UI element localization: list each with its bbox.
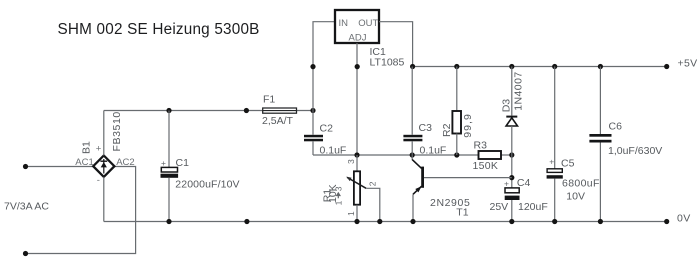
svg-text:OUT: OUT	[358, 18, 378, 29]
node dot on IN riser	[310, 64, 315, 69]
node R1 bottom	[354, 219, 359, 224]
wire +5V rail	[413, 66, 667, 68]
svg-text:R3: R3	[474, 140, 488, 152]
svg-text:3: 3	[346, 159, 356, 164]
svg-text:ADJ: ADJ	[349, 33, 367, 44]
node C3/collector junction	[410, 152, 415, 157]
svg-text:+: +	[504, 178, 509, 188]
node dot on ADJ vertical	[355, 64, 360, 69]
svg-text:2: 2	[367, 181, 377, 186]
svg-text:IN: IN	[339, 18, 349, 29]
wire D3/R3 node down through base to C4	[511, 155, 513, 188]
svg-text:FB3510: FB3510	[111, 111, 123, 151]
svg-text:AC1: AC1	[75, 157, 93, 168]
trimmer R1	[346, 155, 380, 222]
transistor T1	[412, 155, 512, 222]
svg-text:1: 1	[346, 211, 356, 216]
node R3/D3 junction	[509, 152, 514, 157]
svg-text:SHM 002 SE Heizung 5300B: SHM 002 SE Heizung 5300B	[58, 21, 260, 38]
node 0V terminal	[664, 219, 669, 224]
node OUT corner dot	[410, 64, 415, 69]
wire bridge minus down to 0V rail	[103, 177, 105, 222]
node junction C1 top	[166, 108, 171, 113]
svg-text:10V: 10V	[566, 190, 585, 202]
node C6 bottom	[598, 219, 603, 224]
svg-text:F1: F1	[263, 94, 275, 106]
op-amp regulator IC1 box	[335, 10, 379, 43]
svg-text:0V: 0V	[677, 212, 691, 224]
capacitor C5	[547, 67, 563, 222]
wire AC top input	[26, 166, 94, 168]
svg-text:T1: T1	[456, 207, 468, 219]
svg-text:25V: 25V	[490, 201, 509, 213]
node junction dot on 0V	[244, 219, 249, 224]
node C4 bottom	[509, 219, 514, 224]
node R2 bottom junction	[454, 152, 459, 157]
svg-text:+: +	[96, 144, 102, 155]
capacitor C6	[589, 67, 611, 222]
svg-text:7V/3A AC: 7V/3A AC	[4, 201, 49, 213]
node C5 top	[552, 64, 557, 69]
svg-text:1,0uF/630V: 1,0uF/630V	[608, 145, 662, 157]
wire bridge plus up to rail	[103, 111, 105, 156]
node C5 bottom	[552, 219, 557, 224]
capacitor C4	[505, 188, 520, 222]
capacitor C3	[403, 67, 422, 156]
fuse F1	[263, 108, 297, 113]
node D3 top	[509, 64, 514, 69]
resistor R2	[452, 67, 461, 156]
capacitor C2	[304, 111, 323, 156]
svg-text:1N4007: 1N4007	[512, 71, 524, 110]
svg-text:D3: D3	[501, 99, 513, 113]
svg-text:C1: C1	[176, 157, 190, 169]
svg-text:3: 3	[333, 186, 343, 191]
svg-text:0.1uF: 0.1uF	[420, 145, 447, 157]
svg-text:99,9: 99,9	[462, 113, 474, 138]
node ADJ/R1 junction	[354, 152, 359, 157]
svg-text:2,5A/T: 2,5A/T	[262, 115, 294, 127]
svg-text:R2: R2	[441, 123, 453, 137]
wire ADJ pin down	[356, 43, 358, 155]
node junction dot	[244, 108, 249, 113]
svg-text:+: +	[549, 156, 554, 166]
diode D3	[506, 67, 517, 156]
node base junction	[509, 175, 514, 180]
node R1 wiper bottom	[377, 219, 382, 224]
node C1 bottom	[166, 219, 171, 224]
label 1-3 arrow	[333, 186, 343, 205]
bridge rectifier B1	[93, 156, 114, 177]
wire AC bottom input	[26, 167, 136, 254]
svg-text:C3: C3	[419, 122, 433, 134]
svg-text:1: 1	[333, 200, 343, 205]
resistor R3	[479, 151, 502, 159]
node junction F1 out	[310, 108, 315, 113]
svg-text:LT1085: LT1085	[370, 57, 405, 69]
wire ADJ rail	[313, 154, 479, 156]
node AC bottom terminal	[23, 251, 28, 256]
svg-text:120uF: 120uF	[518, 201, 548, 213]
wire IN riser	[313, 22, 335, 111]
wire 0V rail	[104, 221, 667, 223]
svg-text:150K: 150K	[473, 160, 499, 172]
node AC top terminal	[23, 164, 28, 169]
svg-text:-: -	[97, 175, 100, 186]
svg-text:C4: C4	[517, 177, 531, 189]
svg-text:C5: C5	[561, 157, 575, 169]
svg-text:22000uF/10V: 22000uF/10V	[175, 178, 239, 190]
svg-text:+5V: +5V	[678, 58, 698, 70]
node +5V terminal	[664, 64, 669, 69]
svg-text:C6: C6	[609, 121, 623, 133]
svg-text:6800uF: 6800uF	[562, 178, 600, 190]
svg-text:AC2: AC2	[116, 157, 134, 168]
node R2 top	[454, 64, 459, 69]
node C6 top	[598, 64, 603, 69]
wire OUT to +5V rail	[379, 22, 413, 67]
svg-text:B1: B1	[81, 141, 93, 154]
capacitor C1	[161, 111, 179, 222]
wire top rail (F1 rail)	[104, 110, 263, 112]
node T1 emitter bottom	[410, 219, 415, 224]
svg-text:+: +	[161, 158, 166, 168]
svg-text:C2: C2	[320, 122, 334, 134]
